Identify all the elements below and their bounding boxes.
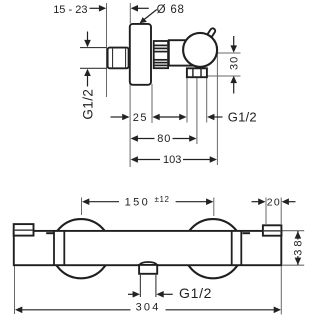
wire: handle front extension: [216, 52, 218, 165]
outlet nut (front view): [139, 265, 157, 274]
mixer bar body: [14, 231, 282, 265]
svg-text:Ø 68: Ø 68: [157, 4, 185, 16]
svg-text:±12: ±12: [155, 195, 170, 204]
outlet nut below valve: [187, 68, 207, 77]
escutcheon plate (side view): [130, 24, 151, 85]
handle lever stub: [204, 27, 216, 41]
wire: valve centerline extension right: [218, 52, 241, 54]
wire: 304 left extension: [14, 266, 16, 314]
svg-text:25: 25: [133, 112, 148, 124]
wire: escutcheon front extension: [151, 84, 153, 123]
left knob collar lines: [54, 231, 64, 264]
svg-text:103: 103: [163, 154, 181, 166]
svg-text:20: 20: [267, 196, 281, 208]
svg-text:80: 80: [157, 133, 171, 145]
svg-text:15 - 23: 15 - 23: [53, 4, 87, 16]
wire: outlet nut left extension: [186, 78, 188, 123]
left supply union cap: [14, 224, 34, 236]
wire: outlet right extension: [155, 274, 157, 297]
valve body: [169, 40, 198, 65]
outlet dome: [140, 262, 157, 265]
dimension G1/2 left (vertical): [80, 32, 95, 120]
dimension 38 (vertical right): [292, 231, 305, 265]
dimension 150 +-12: [82, 195, 213, 209]
dimension G1/2 bottom: [128, 285, 212, 301]
wall fitting nipple: [108, 48, 129, 69]
label diameter 68 with leader: [140, 4, 185, 23]
wire: 20 left extension: [265, 198, 267, 225]
wire: fitting bottom tick: [80, 67, 107, 69]
wire: 150 left extension: [81, 198, 83, 216]
dimension 304: [15, 302, 281, 314]
wire: 20 right extension: [280, 198, 282, 225]
svg-text:38: 38: [293, 238, 305, 256]
svg-text:304: 304: [136, 302, 161, 314]
wire: escutcheon face extension lower: [129, 84, 131, 167]
left knob circle: [51, 219, 110, 278]
wire: outlet bottom extension right: [207, 75, 241, 77]
wire: outlet nut right extension: [206, 78, 208, 123]
wire: outlet axis extension: [196, 78, 198, 144]
dimension 30 (vertical right): [229, 36, 241, 94]
dimension 15-23: [53, 4, 149, 16]
dimension 20: [252, 196, 296, 208]
right supply union cap: [263, 225, 282, 235]
right knob collar lines: [232, 231, 242, 264]
svg-text:G1/2: G1/2: [228, 109, 257, 124]
right knob circle: [183, 219, 242, 278]
svg-text:150: 150: [125, 197, 151, 209]
dimension 80 row: [131, 133, 197, 145]
wire: 150 right extension: [213, 198, 215, 217]
svg-text:G1/2: G1/2: [179, 285, 212, 301]
wire: 304 right extension: [280, 237, 282, 315]
wire: fitting top tick: [80, 47, 107, 49]
wire: 38 top extension: [283, 230, 305, 232]
wire: outlet left extension: [139, 274, 141, 297]
svg-text:30: 30: [229, 56, 241, 70]
threaded connector with ridges: [154, 41, 168, 68]
wire: wall reference extension line: [106, 3, 108, 97]
thermostat knob (side view circle): [183, 33, 217, 67]
dimension 25 row: [111, 112, 187, 124]
dimension G1/2 right row: [207, 109, 257, 124]
dimension 103 row: [131, 154, 217, 166]
right detail tick: [243, 232, 251, 234]
svg-text:G1/2: G1/2: [80, 89, 95, 120]
wire: 38 bottom extension: [283, 264, 305, 266]
wire: escutcheon face extension upper: [129, 3, 131, 24]
left detail tick: [46, 232, 54, 234]
